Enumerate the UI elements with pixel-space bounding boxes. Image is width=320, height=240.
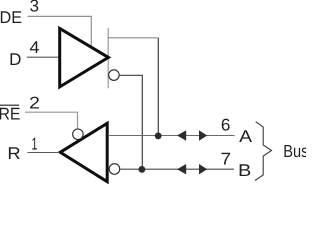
bubble receiver enable	[73, 129, 84, 140]
svg-text:R: R	[7, 144, 20, 163]
wire A vertical drop	[157, 38, 159, 136]
wire driver branch to A	[108, 37, 159, 39]
svg-text:7: 7	[221, 149, 232, 168]
wire DE	[28, 16, 92, 45]
label RE overline	[0, 104, 19, 106]
wire D	[27, 56, 60, 58]
svg-text:RE: RE	[0, 105, 21, 124]
arrow B right	[199, 164, 207, 174]
svg-text:3: 3	[30, 0, 39, 15]
wire driver output stub	[107, 28, 109, 89]
svg-text:4: 4	[30, 38, 40, 57]
wire R	[27, 152, 59, 154]
wire A line	[108, 135, 235, 137]
svg-text:D: D	[9, 50, 21, 69]
svg-text:A: A	[239, 127, 253, 146]
arrow B left	[177, 164, 186, 174]
driver U1	[60, 28, 109, 87]
wire B vertical drop	[120, 75, 143, 169]
arrow A left	[177, 130, 186, 140]
svg-text:DE: DE	[0, 8, 22, 27]
brace bus	[255, 122, 272, 181]
wire RE	[25, 112, 78, 128]
svg-text:1: 1	[32, 134, 38, 153]
receiver U2	[60, 123, 107, 181]
junction dot B	[139, 166, 145, 172]
junction dot A	[155, 133, 161, 139]
bubble driver inverting output	[109, 70, 120, 81]
arrow A right	[199, 130, 207, 140]
svg-text:B: B	[238, 161, 251, 180]
svg-text:Bus: Bus	[283, 141, 306, 161]
svg-text:2: 2	[29, 93, 40, 112]
wire B line	[120, 168, 234, 170]
bubble receiver inverting input	[109, 164, 120, 175]
svg-text:6: 6	[221, 116, 231, 135]
